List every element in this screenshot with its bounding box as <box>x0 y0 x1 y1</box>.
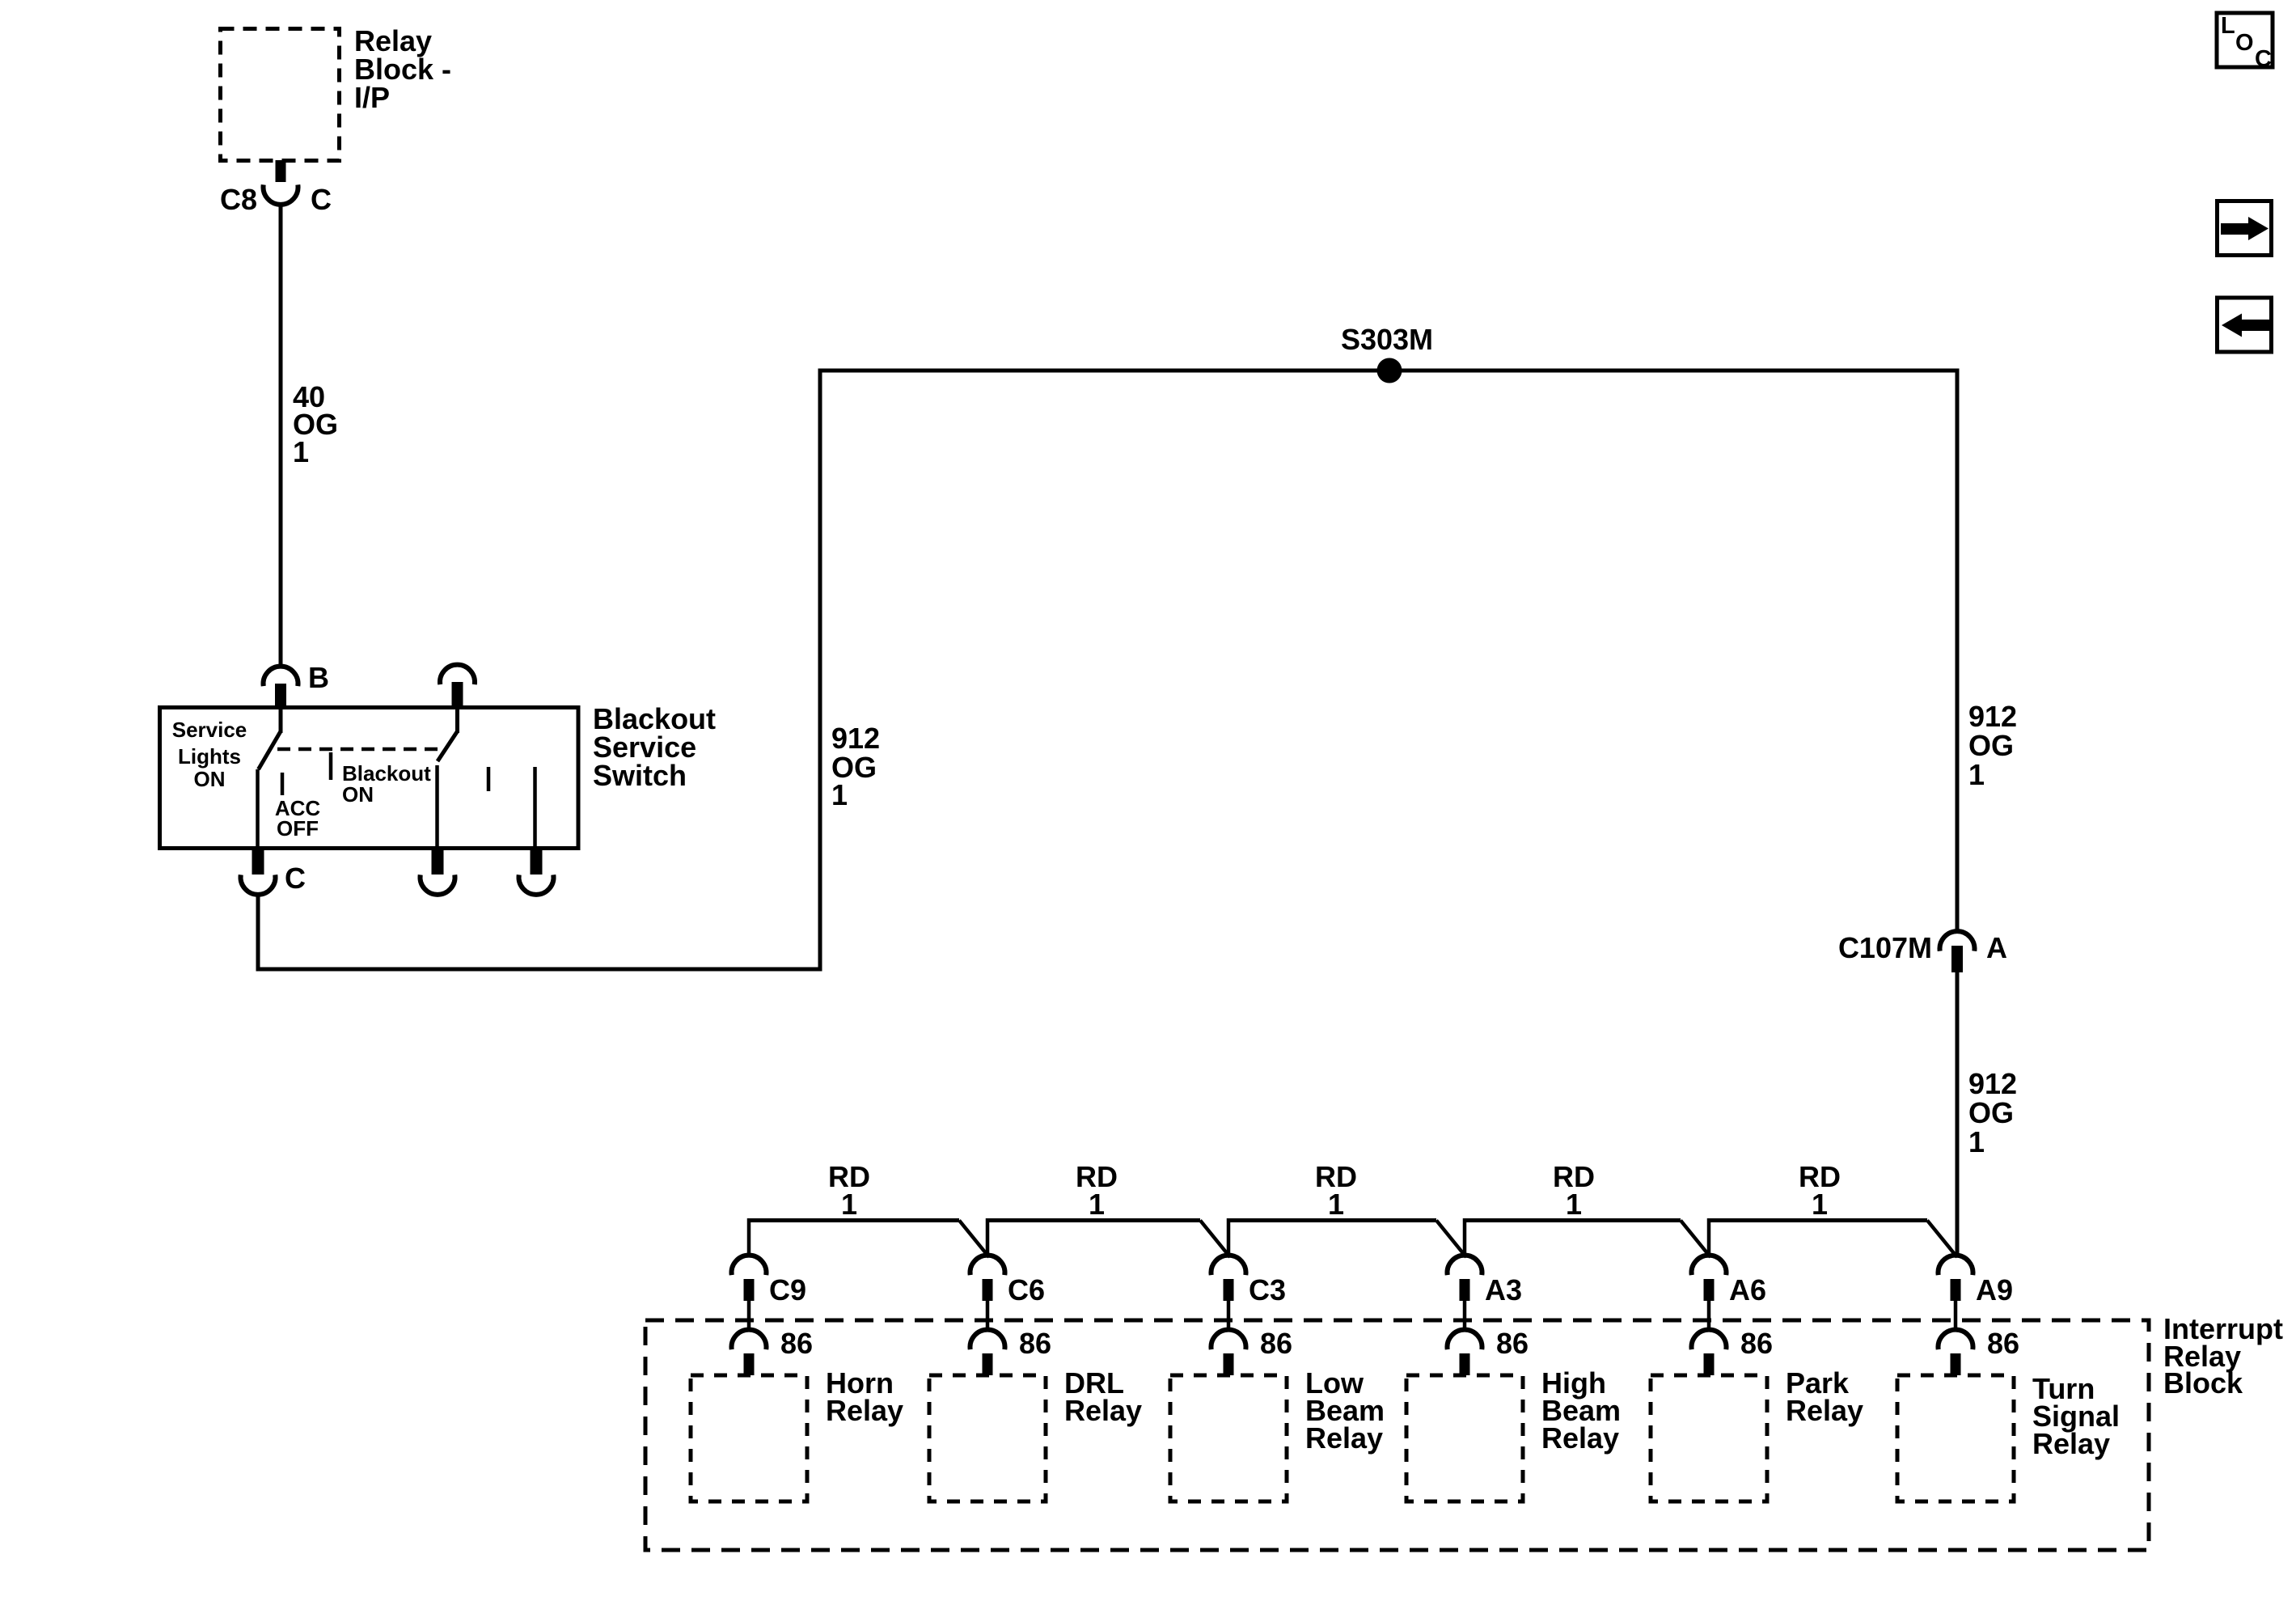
wire: riser from connector C6 up to bus <box>986 1218 990 1256</box>
svg-text:86: 86 <box>1260 1327 1292 1360</box>
connector A6 (cap over pin) <box>1692 1256 1727 1301</box>
label: Low Beam Relay <box>1305 1366 1385 1455</box>
Turn Signal Relay (dashed relay box) <box>1897 1375 2014 1501</box>
label: Turn Signal Relay <box>2032 1372 2120 1460</box>
wire: riser from connector A6 up to bus <box>1707 1218 1711 1256</box>
svg-text:A3: A3 <box>1485 1273 1522 1306</box>
switch blade (left pole, Service Lights ON position) <box>259 731 281 769</box>
svg-text:C107M: C107M <box>1838 931 1932 964</box>
label: DRL Relay <box>1064 1366 1142 1427</box>
svg-text:Relay: Relay <box>1786 1394 1863 1427</box>
wire: stub from right pin into switch <box>455 707 459 733</box>
svg-text:86: 86 <box>1496 1327 1529 1360</box>
label: High Beam Relay <box>1541 1366 1621 1455</box>
Interrupt Relay Block (dashed block outline) <box>645 1320 2149 1550</box>
label: Relay Block - I/P <box>354 24 451 114</box>
wire: bus diagonal drop 2 <box>1200 1221 1230 1258</box>
connector terminal 86 of Turn relay (cap over pin) <box>1939 1330 1973 1375</box>
back-arrow navigation icon <box>2218 298 2272 352</box>
switch blade (right pole) <box>438 731 458 761</box>
wire: bus segment 3 <box>1228 1218 1436 1222</box>
svg-text:Switch: Switch <box>593 759 687 792</box>
label: wire 40 OG 1 <box>293 380 338 468</box>
connector terminal 86 of Park relay (cap over pin) <box>1692 1330 1727 1375</box>
svg-text:OG: OG <box>1968 1096 2014 1129</box>
wire: C6 pin to relay terminal 86 <box>986 1301 990 1331</box>
label: Service Lights ON <box>172 718 247 791</box>
LOC reference icon box <box>2217 13 2273 72</box>
svg-text:86: 86 <box>1987 1327 2019 1360</box>
svg-text:Lights: Lights <box>178 744 241 769</box>
wire: A6 pin to relay terminal 86 <box>1707 1301 1711 1331</box>
svg-text:C6: C6 <box>1008 1273 1045 1306</box>
connector terminal 86 of High relay (cap over pin) <box>1448 1330 1482 1375</box>
svg-text:1: 1 <box>1566 1188 1582 1221</box>
wire: bus segment 2 <box>987 1218 1200 1222</box>
label: Interrupt Relay Block <box>2163 1312 2283 1400</box>
svg-text:C: C <box>285 862 306 895</box>
label: Blackout Service Switch <box>593 702 716 792</box>
connector at switch top right (cap over pin) <box>440 665 475 706</box>
svg-text:A6: A6 <box>1729 1273 1766 1306</box>
label: wire RD 1 (segment 4) <box>1553 1160 1595 1221</box>
svg-text:C: C <box>311 183 332 216</box>
svg-text:86: 86 <box>1019 1327 1051 1360</box>
svg-text:Block: Block <box>2163 1366 2243 1400</box>
connector C9 (cap over pin) <box>732 1256 767 1301</box>
connector C8 pin C (pin into cup) <box>264 160 298 205</box>
connector A3 (cap over pin) <box>1448 1256 1482 1301</box>
fixed contact (right pole, centre throw) <box>435 765 439 848</box>
connector B at switch top (cap over pin) <box>264 667 298 708</box>
svg-text:1: 1 <box>841 1188 857 1221</box>
svg-text:S303M: S303M <box>1341 323 1433 356</box>
wire: A9 pin to relay terminal 86 <box>1954 1301 1958 1331</box>
connector terminal 86 of DRL relay (cap over pin) <box>970 1330 1005 1375</box>
fixed contact tick (right pole, Blackout ON throw) <box>329 752 333 780</box>
wire: riser from connector C3 up to bus <box>1227 1218 1231 1256</box>
connector terminal 86 of Low relay (cap over pin) <box>1211 1330 1246 1375</box>
svg-text:Relay: Relay <box>2032 1427 2110 1460</box>
connector C6 (cap over pin) <box>970 1256 1005 1301</box>
splice S303M (junction dot) <box>1377 358 1402 383</box>
svg-text:OG: OG <box>1968 729 2014 762</box>
DRL Relay (dashed relay box) <box>929 1375 1046 1501</box>
forward-arrow navigation icon <box>2218 201 2272 256</box>
svg-text:Relay: Relay <box>1064 1394 1142 1427</box>
wire: bus segment 1 <box>749 1218 959 1222</box>
Low Beam Relay (dashed relay box) <box>1170 1375 1287 1501</box>
wire: bus segment 4 <box>1465 1218 1681 1222</box>
switch bottom pin 2 (unused, pin into cup) <box>421 848 455 895</box>
switch bottom pin 3 (unused, pin into cup) <box>519 848 554 895</box>
Blackout Service Switch component box <box>160 708 579 849</box>
svg-text:1: 1 <box>831 778 848 811</box>
svg-text:1: 1 <box>1968 758 1985 791</box>
label: wire 912 OG 1 (left riser) <box>831 722 880 811</box>
svg-text:Relay: Relay <box>1305 1421 1383 1455</box>
svg-text:1: 1 <box>1089 1188 1105 1221</box>
wire: bus diagonal drop 4 <box>1681 1221 1710 1258</box>
fixed contact (right pole, far throw) <box>533 767 537 848</box>
svg-text:C3: C3 <box>1249 1273 1286 1306</box>
svg-text:O: O <box>2235 30 2254 56</box>
svg-text:912: 912 <box>1968 1067 2017 1100</box>
svg-text:L: L <box>2221 13 2235 39</box>
svg-text:C8: C8 <box>220 183 257 216</box>
wire: bus diagonal drop 5 <box>1927 1221 1957 1258</box>
relay block I/P (dashed component box) <box>221 29 340 161</box>
label: Blackout ON <box>342 761 431 807</box>
label: wire RD 1 (segment 5) <box>1799 1160 1841 1221</box>
wire: C3 pin to relay terminal 86 <box>1227 1301 1231 1331</box>
label: wire 912 OG 1 (right riser upper) <box>1968 700 2017 791</box>
svg-text:1: 1 <box>1812 1188 1828 1221</box>
label: wire RD 1 (segment 3) <box>1315 1160 1357 1221</box>
Horn Relay (dashed relay box) <box>691 1375 807 1501</box>
svg-text:912: 912 <box>1968 700 2017 733</box>
svg-text:B: B <box>308 661 329 694</box>
svg-text:ON: ON <box>194 767 226 791</box>
wire: A3 pin to relay terminal 86 <box>1463 1301 1467 1331</box>
svg-text:1: 1 <box>293 435 309 468</box>
svg-text:ON: ON <box>342 782 374 807</box>
label: wire 912 OG 1 (right riser lower) <box>1968 1067 2017 1158</box>
svg-text:Relay: Relay <box>826 1394 903 1427</box>
label: wire RD 1 (segment 2) <box>1076 1160 1118 1221</box>
connector C at switch bottom (pin into cup) <box>241 848 276 895</box>
wire: C8 to Blackout Service Switch pin B <box>279 204 283 667</box>
svg-text:86: 86 <box>780 1327 813 1360</box>
label: ACC OFF <box>275 796 321 841</box>
dashed mechanical linkage between switch poles <box>277 747 444 752</box>
High Beam Relay (dashed relay box) <box>1406 1375 1523 1501</box>
wire: C9 pin to relay terminal 86 <box>747 1301 751 1331</box>
svg-text:912: 912 <box>831 722 880 755</box>
svg-text:C9: C9 <box>769 1273 806 1306</box>
svg-text:C: C <box>2255 46 2272 72</box>
connector C107M pin A (cap over pin, inline) <box>1940 931 1975 972</box>
wire: from C down, right, up to splice bus and down right side to C107M <box>258 371 1957 969</box>
svg-text:I/P: I/P <box>354 81 390 114</box>
connector terminal 86 of Horn relay (cap over pin) <box>732 1330 767 1375</box>
svg-text:1: 1 <box>1328 1188 1344 1221</box>
connector A9 (cap over pin) <box>1939 1256 1973 1301</box>
wire: C107M down to relay block feed <box>1956 972 1960 1257</box>
svg-text:86: 86 <box>1740 1327 1773 1360</box>
svg-text:OFF: OFF <box>277 816 319 841</box>
svg-text:A9: A9 <box>1976 1273 2013 1306</box>
label: wire RD 1 (segment 1) <box>828 1160 870 1221</box>
wire: riser from connector C9 up to bus <box>747 1218 751 1256</box>
fixed contact (left pole, ON throw) <box>256 769 260 848</box>
label: Horn Relay <box>826 1366 903 1427</box>
wire: riser from connector A3 up to bus <box>1463 1218 1467 1256</box>
connector C3 (cap over pin) <box>1211 1256 1246 1301</box>
wire: bus segment 5 <box>1709 1218 1927 1222</box>
svg-text:Service: Service <box>172 718 247 742</box>
fixed contact tick (left pole, ACC OFF throw) <box>281 773 285 795</box>
wire: bus diagonal drop 1 <box>959 1221 989 1258</box>
svg-text:1: 1 <box>1968 1125 1985 1158</box>
Park Relay (dashed relay box) <box>1651 1375 1767 1501</box>
svg-text:Relay: Relay <box>1541 1421 1619 1455</box>
wire: bus diagonal drop 3 <box>1436 1221 1466 1258</box>
fixed contact tick (right pole middle) <box>487 767 491 791</box>
wire: stub from pin B into switch <box>279 707 283 733</box>
svg-text:A: A <box>1986 931 2007 964</box>
label: Park Relay <box>1786 1366 1863 1427</box>
